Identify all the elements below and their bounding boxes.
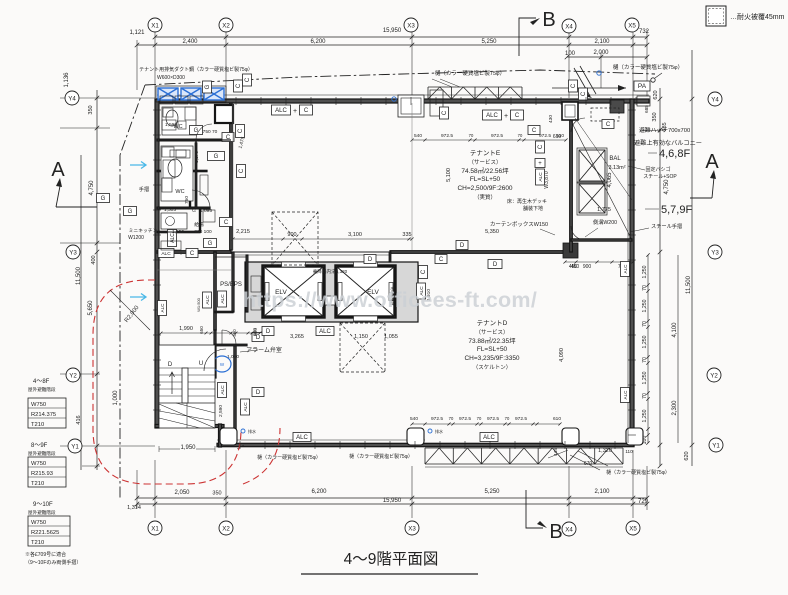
svg-text:C: C bbox=[538, 144, 544, 149]
svg-text:350: 350 bbox=[88, 105, 94, 114]
svg-text:G: G bbox=[205, 84, 211, 89]
svg-text:屋外避難階段: 屋外避難階段 bbox=[28, 509, 56, 516]
svg-text:D: D bbox=[460, 243, 465, 249]
svg-text:W750: W750 bbox=[31, 461, 46, 467]
svg-text:X1: X1 bbox=[151, 525, 159, 532]
svg-text:2,100: 2,100 bbox=[594, 39, 610, 45]
dimension framework right bbox=[607, 50, 694, 468]
top-right dark unit bbox=[610, 100, 624, 113]
svg-text:※各£709号に適合: ※各£709号に適合 bbox=[25, 551, 66, 558]
corridor / PS EPS bbox=[214, 252, 216, 330]
svg-text:G: G bbox=[192, 208, 196, 214]
dimension framework top bbox=[129, 28, 649, 98]
scattered C G boxes top wall bbox=[234, 80, 243, 92]
dashed X box below tenant wall bbox=[340, 323, 385, 372]
svg-text:972.5: 972.5 bbox=[459, 416, 471, 422]
ALC panel joint ticks top wall bbox=[236, 97, 636, 105]
tenant E right wall bbox=[570, 103, 573, 252]
svg-text:舗装下地: 舗装下地 bbox=[523, 205, 543, 212]
stair bottom wall bbox=[155, 425, 224, 428]
svg-text:5,650: 5,650 bbox=[88, 300, 94, 316]
red dashed evacuation circle bbox=[93, 280, 241, 484]
svg-text:11,500: 11,500 bbox=[76, 266, 82, 285]
elevator block bbox=[245, 262, 418, 322]
svg-text:3.13m²: 3.13m² bbox=[608, 165, 625, 171]
svg-text:樋（カラー硬質塩ビ製75φ）: 樋（カラー硬質塩ビ製75φ） bbox=[435, 69, 505, 77]
svg-text:1,095: 1,095 bbox=[200, 208, 212, 214]
svg-text:X1: X1 bbox=[151, 22, 159, 29]
svg-text:15,950: 15,950 bbox=[383, 28, 402, 34]
svg-text:ALC: ALC bbox=[220, 385, 226, 395]
long leader arrow to corner bbox=[552, 87, 626, 89]
svg-text:972.5: 972.5 bbox=[431, 416, 443, 422]
svg-text:73.88㎡/22.35坪: 73.88㎡/22.35坪 bbox=[468, 336, 516, 345]
svg-text:5,100: 5,100 bbox=[446, 168, 452, 182]
svg-text:ミニキッチン: ミニキッチン bbox=[129, 228, 158, 234]
svg-text:排水: 排水 bbox=[435, 428, 443, 434]
svg-text:ALC: ALC bbox=[486, 113, 498, 119]
svg-text:2,215: 2,215 bbox=[236, 229, 250, 235]
svg-text:樋（カラー硬質塩ビ製75φ）: 樋（カラー硬質塩ビ製75φ） bbox=[606, 469, 670, 476]
svg-text:X5: X5 bbox=[628, 22, 636, 29]
svg-text:3,100: 3,100 bbox=[348, 232, 362, 238]
svg-text:X2: X2 bbox=[222, 525, 230, 532]
core fixtures WC upper bbox=[162, 107, 196, 135]
svg-text:B: B bbox=[542, 9, 555, 31]
svg-text:ALC: ALC bbox=[205, 295, 211, 305]
svg-text:W1200: W1200 bbox=[128, 235, 144, 241]
svg-text:+: + bbox=[538, 161, 542, 167]
dashed X box above ELV bbox=[272, 212, 318, 265]
svg-text:側溝W200: 側溝W200 bbox=[593, 218, 617, 226]
svg-text:732: 732 bbox=[639, 29, 650, 35]
PS/EPS shaft walls bbox=[246, 255, 248, 312]
bottom truss band bbox=[425, 447, 623, 449]
svg-text:床：再生木デッキ: 床：再生木デッキ bbox=[507, 198, 547, 205]
svg-text:避難ハッチ700x700: 避難ハッチ700x700 bbox=[639, 126, 690, 134]
extra core density bbox=[159, 120, 231, 250]
svg-text:620: 620 bbox=[684, 451, 690, 460]
svg-text:D: D bbox=[368, 257, 373, 263]
svg-text:ALC: ALC bbox=[319, 329, 331, 335]
svg-text:W600×D300: W600×D300 bbox=[157, 75, 185, 81]
ALC panel joint ticks right wall bbox=[628, 110, 636, 435]
small boxes right of corner bbox=[637, 96, 650, 106]
svg-text:972.5: 972.5 bbox=[539, 133, 551, 139]
svg-text:610: 610 bbox=[556, 133, 564, 139]
mini kitchen bbox=[161, 213, 187, 229]
dimension framework left bbox=[60, 72, 155, 470]
core fixtures mid bbox=[161, 146, 193, 201]
core partition walls bbox=[157, 139, 231, 141]
small label boxes core bbox=[190, 126, 203, 135]
svg-text:G: G bbox=[194, 128, 199, 134]
svg-text:729: 729 bbox=[638, 499, 649, 505]
ALC panel joint ticks left wall bbox=[153, 110, 161, 410]
svg-text:70: 70 bbox=[477, 416, 482, 421]
svg-text:750: 750 bbox=[184, 196, 190, 204]
svg-text:ALC: ALC bbox=[275, 108, 287, 114]
top wall panel dims bbox=[412, 139, 566, 141]
svg-text:C: C bbox=[421, 269, 427, 274]
svg-text:610: 610 bbox=[553, 416, 561, 422]
svg-text:D: D bbox=[493, 262, 498, 268]
svg-text:A: A bbox=[705, 151, 719, 173]
bottom exterior wall bbox=[217, 443, 634, 446]
svg-text:400: 400 bbox=[91, 255, 97, 264]
svg-text:カーテンボックスW150: カーテンボックスW150 bbox=[490, 220, 548, 228]
svg-text:D: D bbox=[168, 362, 173, 368]
svg-text:CH=2,500/9F:2600: CH=2,500/9F:2600 bbox=[457, 185, 512, 192]
svg-text:樋（カラー硬質塩ビ製75φ）: 樋（カラー硬質塩ビ製75φ） bbox=[257, 454, 321, 461]
svg-text:C: C bbox=[571, 83, 577, 88]
corridor wall line y253 bbox=[233, 251, 390, 253]
svg-text:C: C bbox=[515, 113, 520, 119]
balcony inner content bbox=[571, 118, 632, 240]
svg-text:4～8F: 4～8F bbox=[33, 379, 50, 385]
top-left blue duct boxes bbox=[158, 88, 178, 100]
svg-text:4,065: 4,065 bbox=[607, 172, 613, 188]
blue leader dot top right bbox=[597, 71, 601, 75]
svg-text:1,775: 1,775 bbox=[597, 207, 611, 213]
svg-text:CH=3,235/9F:3350: CH=3,235/9F:3350 bbox=[464, 355, 519, 362]
svg-text:W750: W750 bbox=[31, 520, 46, 526]
dimension framework bottom bbox=[127, 450, 649, 518]
svg-text:2,100: 2,100 bbox=[594, 489, 610, 495]
svg-text:70: 70 bbox=[449, 416, 454, 421]
svg-text:WC: WC bbox=[175, 189, 184, 195]
svg-text:972.5: 972.5 bbox=[487, 416, 499, 422]
top exterior wall bbox=[157, 99, 649, 103]
stair bbox=[159, 345, 226, 428]
svg-text:1,055: 1,055 bbox=[384, 334, 398, 340]
svg-text:972.5: 972.5 bbox=[515, 416, 527, 422]
alarm valve room bbox=[214, 330, 216, 378]
svg-text:2,590: 2,590 bbox=[218, 405, 224, 417]
svg-text:R214.375: R214.375 bbox=[31, 412, 56, 418]
svg-text:Y1: Y1 bbox=[71, 443, 79, 450]
svg-text:X3: X3 bbox=[408, 525, 416, 532]
svg-text:BAL: BAL bbox=[609, 156, 621, 162]
svg-text:350: 350 bbox=[652, 112, 658, 121]
svg-text:100: 100 bbox=[565, 51, 576, 57]
svg-text:8～9F: 8～9F bbox=[31, 443, 48, 449]
svg-text:1,250: 1,250 bbox=[642, 371, 648, 384]
svg-text:1,990: 1,990 bbox=[179, 326, 193, 332]
svg-text:1,170: 1,170 bbox=[194, 151, 200, 163]
svg-text:C: C bbox=[190, 251, 195, 257]
svg-text:D: D bbox=[256, 390, 261, 396]
grid circles right bbox=[707, 92, 723, 452]
svg-text:+: + bbox=[293, 108, 297, 115]
svg-text:600: 600 bbox=[252, 328, 257, 336]
PA leader circle bbox=[651, 78, 655, 82]
top-right dashed hatch bbox=[591, 108, 619, 121]
grid circles top X1-X5 bbox=[148, 18, 639, 33]
svg-text:450: 450 bbox=[571, 264, 580, 270]
svg-text:C: C bbox=[439, 257, 444, 263]
svg-text:Y4: Y4 bbox=[68, 95, 76, 102]
svg-text:1,250: 1,250 bbox=[642, 265, 648, 278]
svg-text:4,100: 4,100 bbox=[672, 322, 678, 338]
svg-text:Y1: Y1 bbox=[712, 442, 720, 449]
svg-text:350: 350 bbox=[212, 491, 221, 497]
svg-text:テナントE: テナントE bbox=[470, 149, 501, 157]
core walls (upper-left WC area) bbox=[230, 103, 233, 250]
svg-text:ALC: ALC bbox=[161, 251, 171, 257]
bottom wall panel dims bbox=[412, 423, 560, 425]
bottom wall columns bbox=[220, 428, 237, 445]
svg-text:避難上有効なバルコニー: 避難上有効なバルコニー bbox=[634, 139, 702, 147]
grid circles bottom bbox=[148, 521, 640, 536]
svg-text:D: D bbox=[266, 329, 271, 335]
svg-text:5,250: 5,250 bbox=[484, 489, 500, 495]
svg-text:（実質）: （実質） bbox=[474, 193, 496, 201]
svg-text:U: U bbox=[199, 361, 203, 367]
svg-text:A: A bbox=[51, 159, 65, 181]
dim row 1990/650/460/600 under corridor bbox=[161, 332, 260, 334]
svg-text:アラーム弁室: アラーム弁室 bbox=[246, 346, 282, 354]
svg-text:T210: T210 bbox=[31, 422, 44, 428]
right wall inner face bbox=[627, 103, 629, 443]
svg-text:PS/EPS: PS/EPS bbox=[220, 282, 242, 288]
downspout slant pipe bbox=[574, 66, 596, 96]
svg-text:1,250: 1,250 bbox=[642, 409, 648, 422]
svg-text:（スケルトン）: （スケルトン） bbox=[473, 364, 512, 371]
svg-text:C: C bbox=[239, 168, 245, 173]
svg-text:70: 70 bbox=[469, 133, 474, 138]
svg-text:70: 70 bbox=[642, 321, 648, 327]
svg-text:X4: X4 bbox=[565, 23, 573, 30]
svg-text:1,314: 1,314 bbox=[127, 505, 141, 511]
svg-text:540: 540 bbox=[410, 416, 418, 422]
shaft column X2 top bbox=[215, 105, 233, 123]
svg-text:Y3: Y3 bbox=[69, 249, 77, 256]
svg-text:2,300: 2,300 bbox=[672, 400, 678, 416]
svg-text:W1:500: W1:500 bbox=[196, 297, 201, 312]
svg-text:ALC: ALC bbox=[220, 294, 226, 304]
svg-text:C: C bbox=[245, 77, 251, 82]
top-right fixture box bbox=[562, 102, 578, 120]
svg-text:Y4: Y4 bbox=[711, 96, 719, 103]
svg-text:固定バシゴ: 固定バシゴ bbox=[645, 166, 670, 173]
svg-text:70: 70 bbox=[642, 393, 648, 399]
svg-text:972.5: 972.5 bbox=[441, 133, 453, 139]
svg-text:11,500: 11,500 bbox=[686, 275, 692, 294]
svg-text:FL=SL+50: FL=SL+50 bbox=[477, 346, 508, 353]
svg-text:Y3: Y3 bbox=[711, 249, 719, 256]
svg-text:X2: X2 bbox=[222, 22, 230, 29]
svg-text:（サービス）: （サービス） bbox=[475, 328, 508, 336]
svg-text:W3,870: W3,870 bbox=[544, 171, 550, 188]
legend: fireproof covering 45mm bbox=[706, 6, 785, 26]
left wall ALC+C labels row bbox=[158, 249, 174, 258]
svg-text:排水: 排水 bbox=[248, 428, 256, 434]
svg-text:X3: X3 bbox=[407, 22, 415, 29]
svg-text:335: 335 bbox=[402, 232, 411, 238]
svg-text:1,000: 1,000 bbox=[113, 390, 119, 406]
blue ellipse annotation bbox=[213, 356, 231, 372]
svg-text:4,090: 4,090 bbox=[559, 348, 565, 362]
svg-text:T210: T210 bbox=[31, 540, 44, 546]
svg-text:1,560: 1,560 bbox=[165, 122, 177, 128]
balcony bottom wall bbox=[571, 239, 632, 241]
svg-text:1,250: 1,250 bbox=[642, 335, 648, 348]
left stair tables bbox=[25, 379, 81, 566]
svg-text:540: 540 bbox=[414, 133, 422, 139]
gutter leaders bottom bbox=[548, 450, 568, 458]
svg-text:6,200: 6,200 bbox=[311, 489, 327, 495]
svg-text:70: 70 bbox=[505, 416, 510, 421]
top wall ALC+C labels bbox=[272, 105, 291, 115]
svg-text:750 70: 750 70 bbox=[203, 129, 218, 135]
svg-text:110: 110 bbox=[625, 449, 633, 454]
svg-text:ALC: ALC bbox=[623, 390, 628, 400]
sink at X3 bbox=[398, 95, 424, 117]
more wall label boxes bbox=[243, 74, 252, 86]
svg-text:972.5: 972.5 bbox=[491, 133, 503, 139]
svg-text:PA: PA bbox=[638, 83, 647, 90]
cyan arrows bbox=[130, 162, 146, 169]
svg-text:C: C bbox=[304, 108, 309, 114]
interior light grid lines bbox=[411, 103, 413, 250]
svg-text:1,121: 1,121 bbox=[129, 30, 145, 36]
svg-text:15,950: 15,950 bbox=[383, 498, 402, 504]
svg-text:74.58㎡/22.56坪: 74.58㎡/22.56坪 bbox=[461, 166, 509, 175]
svg-text:416: 416 bbox=[76, 415, 82, 424]
svg-text:スチール+SOP: スチール+SOP bbox=[643, 174, 677, 180]
svg-text:4,750: 4,750 bbox=[89, 180, 95, 196]
svg-text:C: C bbox=[236, 83, 242, 88]
svg-text:5,350: 5,350 bbox=[485, 229, 499, 235]
svg-text:ALC: ALC bbox=[483, 435, 495, 441]
svg-text:乗降路内法5,320: 乗降路内法5,320 bbox=[313, 268, 348, 275]
tenant E bottom wall / corridor wall bbox=[390, 251, 572, 254]
svg-text:C: C bbox=[581, 91, 587, 96]
svg-text:4,750: 4,750 bbox=[664, 179, 670, 195]
svg-text:2,050: 2,050 bbox=[174, 490, 190, 496]
svg-text:9～10F: 9～10F bbox=[33, 502, 53, 508]
section marker B top bbox=[519, 9, 556, 56]
svg-text:ALC: ALC bbox=[623, 264, 628, 274]
svg-text:C: C bbox=[606, 122, 611, 128]
svg-text:テナントD: テナントD bbox=[477, 319, 508, 327]
svg-text:R215.93: R215.93 bbox=[31, 471, 53, 477]
svg-text:1,136: 1,136 bbox=[64, 72, 70, 88]
svg-text:1,950: 1,950 bbox=[180, 445, 196, 451]
svg-text:（サービス）: （サービス） bbox=[468, 158, 501, 166]
svg-text:1,320: 1,320 bbox=[598, 448, 612, 454]
svg-text:430: 430 bbox=[548, 115, 554, 123]
svg-text:5,250: 5,250 bbox=[481, 39, 497, 45]
svg-text:70: 70 bbox=[642, 285, 648, 291]
ALC panel joint ticks bottom wall bbox=[240, 441, 615, 449]
svg-text:ALC: ALC bbox=[160, 303, 165, 313]
svg-text:G: G bbox=[101, 196, 106, 202]
right exterior wall bbox=[630, 99, 634, 446]
svg-text:650: 650 bbox=[199, 326, 204, 334]
svg-text:4,6,8F: 4,6,8F bbox=[659, 148, 690, 160]
svg-text:X4: X4 bbox=[565, 526, 573, 533]
svg-text:900: 900 bbox=[583, 264, 592, 270]
svg-text:C: C bbox=[224, 220, 229, 226]
svg-text:ALC: ALC bbox=[538, 172, 544, 182]
svg-text:ALC: ALC bbox=[296, 435, 308, 441]
svg-text:+: + bbox=[504, 113, 508, 120]
svg-text:G: G bbox=[208, 241, 213, 247]
svg-text:給湯: 給湯 bbox=[194, 221, 204, 228]
svg-text:+: + bbox=[179, 252, 183, 258]
svg-text:3,265: 3,265 bbox=[290, 334, 304, 340]
svg-text:C: C bbox=[238, 128, 244, 133]
section marker B bottom bbox=[526, 490, 563, 543]
svg-text:屋外避難階段: 屋外避難階段 bbox=[28, 450, 56, 457]
svg-text:樋（カラー硬質塩ビ製75φ）: 樋（カラー硬質塩ビ製75φ） bbox=[349, 453, 413, 460]
svg-text:B: B bbox=[549, 521, 562, 543]
section marker A left bbox=[51, 159, 97, 207]
svg-text:2,000: 2,000 bbox=[593, 50, 609, 56]
svg-text:70: 70 bbox=[518, 133, 523, 138]
svg-text:スチール手摺: スチール手摺 bbox=[651, 222, 682, 230]
svg-text:5,7,9F: 5,7,9F bbox=[661, 204, 692, 216]
svg-text:R221.5625: R221.5625 bbox=[31, 530, 59, 536]
svg-text:C: C bbox=[532, 128, 537, 134]
svg-text:…耐火被覆45mm: …耐火被覆45mm bbox=[730, 12, 785, 21]
column at 565,250 bbox=[563, 243, 578, 258]
svg-text:（9～10Fのみ両側手摺）: （9～10Fのみ両側手摺） bbox=[25, 559, 81, 566]
svg-text:1,250: 1,250 bbox=[642, 299, 648, 312]
svg-text:樋（カラー硬質塩ビ製75φ）: 樋（カラー硬質塩ビ製75φ） bbox=[613, 63, 683, 71]
svg-text:G: G bbox=[214, 154, 219, 160]
svg-text:G: G bbox=[128, 209, 133, 215]
svg-text:https://www.officees-ft.com/: https://www.officees-ft.com/ bbox=[243, 288, 537, 312]
svg-text:FL=SL+50: FL=SL+50 bbox=[470, 176, 501, 183]
svg-text:1,150: 1,150 bbox=[354, 334, 368, 340]
top truss band bbox=[428, 86, 522, 88]
svg-text:X5: X5 bbox=[629, 525, 637, 532]
grid circles left Y1-Y4 bbox=[65, 91, 82, 453]
section marker A right bbox=[690, 151, 719, 198]
svg-text:Y2: Y2 bbox=[710, 372, 718, 379]
svg-text:屋外避難階段: 屋外避難階段 bbox=[28, 386, 56, 393]
svg-text:Y2: Y2 bbox=[69, 372, 77, 379]
svg-text:手摺: 手摺 bbox=[139, 185, 149, 193]
svg-text:T210: T210 bbox=[31, 481, 44, 487]
svg-text:6,200: 6,200 bbox=[310, 39, 326, 45]
svg-text:4～9階平面図: 4～9階平面図 bbox=[344, 550, 439, 568]
left exterior wall bbox=[155, 99, 159, 428]
svg-text:テナント用排気ダクト鋼（カラー硬質塩ビ製75φ）: テナント用排気ダクト鋼（カラー硬質塩ビ製75φ） bbox=[139, 66, 253, 73]
svg-text:ALC: ALC bbox=[243, 402, 249, 412]
svg-text:70: 70 bbox=[642, 357, 648, 363]
svg-text:620: 620 bbox=[653, 90, 659, 99]
svg-text:685: 685 bbox=[644, 105, 649, 113]
svg-text:2,400: 2,400 bbox=[182, 39, 198, 45]
svg-text:C: C bbox=[442, 110, 448, 115]
site boundary line bbox=[145, 70, 655, 85]
svg-text:W750: W750 bbox=[31, 402, 46, 408]
